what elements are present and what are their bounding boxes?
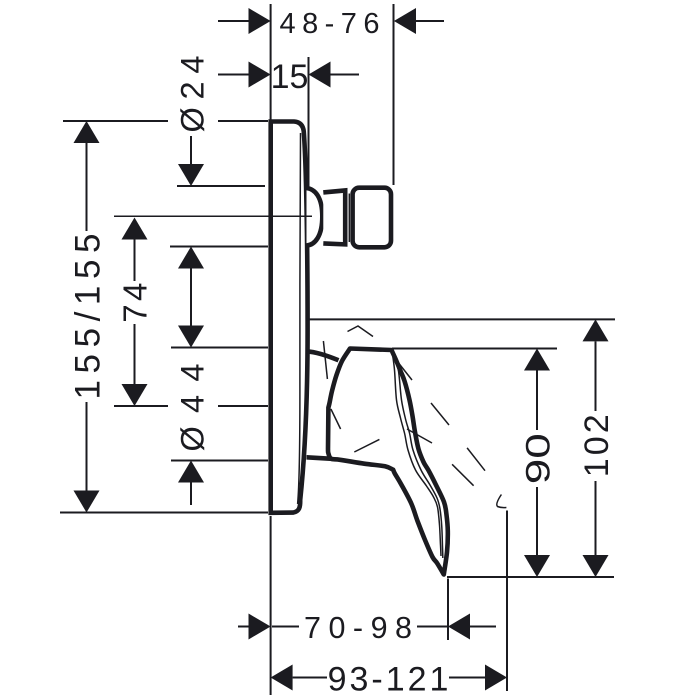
dashed swung-lever: dash lower right b (452, 464, 474, 485)
wire: extension line x=308.5 (front of plate, for 15 dim) (308, 57, 310, 188)
dimension 102 bottom arrow (583, 555, 609, 577)
dimension 93-121 left arrow (271, 665, 293, 691)
wire: extension line y=121 right part (218, 120, 268, 122)
wire: extension line x=507 (dashed lever tip) (506, 511, 508, 692)
wire: extension line y=512.5 (plate bottom) (60, 512, 268, 514)
dimension 93-121 right line (449, 677, 485, 679)
wire: extension line x=393 (knob face, for 48-76 dim) (393, 4, 395, 185)
svg-text:70-98: 70-98 (304, 611, 412, 645)
lever handle body (328, 349, 448, 575)
dimension 74 top arrow (122, 218, 148, 240)
dashed swung-lever: dash lower right a (467, 448, 485, 471)
dimension 70-98 right tail (470, 626, 496, 628)
escutcheon plate (side view) (271, 122, 308, 513)
dimension 74 bottom arrow (122, 384, 148, 406)
volume knob body (353, 188, 391, 248)
dimension 48-76 line right tail (416, 20, 444, 22)
dimension 70-98 inner right line (417, 626, 447, 628)
dimension 90 bottom arrow (524, 555, 550, 577)
dimension Ø24 upper line (190, 136, 192, 165)
dimension 48-76 right arrow (394, 8, 416, 34)
dimension 74 line upper (134, 240, 136, 282)
dimension 90 line upper (536, 371, 538, 431)
dimension 70-98 inner left line (272, 626, 299, 628)
plate face inner edge (thin) (298, 133, 301, 504)
wire: extension line y=406 left part (114, 405, 168, 407)
dimension Ø44 bottom tail (190, 483, 192, 506)
dimension Ø44 bottom arrow (up) (178, 461, 204, 483)
handle neck bottom edge (307, 457, 333, 459)
svg-text:102: 102 (578, 414, 616, 477)
dimension 155/155 line upper (86, 143, 88, 231)
wire: extension line y=319.4 (for 102) (306, 318, 615, 320)
dimension 48-76 left arrow (249, 8, 271, 34)
knob dome (behind volume knob) (307, 188, 323, 246)
dashed swung-lever: dash crossing blade (407, 429, 432, 443)
wire: extension line y=246.5 (knob bottom) (170, 246, 268, 248)
dimension 93-121 right arrow (485, 665, 507, 691)
dimension line between Ø24 and Ø44 arrows (190, 269, 192, 326)
dimension Ø44 top arrow (down) (178, 326, 204, 348)
dimension 70-98 left arrow (249, 614, 271, 640)
dimension 155/155 line lower (86, 402, 88, 491)
wire: extension line x=448 (solid lever tip) (447, 579, 449, 641)
dashed swung-lever: caret tip (348, 326, 374, 337)
dimension Ø24 bottom arrow (up) (178, 247, 204, 269)
wire: extension line x=270.6 below plate (270, 516, 272, 695)
dimension 15 right arrow (309, 62, 331, 88)
dimension 102 top arrow (583, 319, 609, 341)
dimension 15 left arrow (249, 62, 271, 88)
svg-text:15: 15 (271, 58, 309, 96)
dashed swung-lever: dash inside handle upper (331, 409, 341, 429)
dashed swung-lever: dash mid right (431, 403, 449, 425)
wire: knob centerline y=216.3 (114, 215, 312, 217)
wire: extension line y=121 (plate top) left part (63, 120, 168, 122)
lever blade inner contour line 2 (394, 355, 443, 558)
wire: extension line y=347.5 (handle top) (171, 347, 268, 349)
svg-text:48-76: 48-76 (280, 8, 380, 40)
dashed swung-lever: hook at dashed tip (497, 495, 507, 508)
lever blade inner contour line 1 (392, 353, 441, 556)
dimension 90 top arrow (524, 349, 550, 371)
dashed swung-lever: dash near blade top (393, 356, 412, 380)
handle neck top edge (307, 351, 339, 360)
dimension 155/155 bottom arrow (74, 491, 100, 513)
dimension 48-76 line left tail (218, 20, 249, 22)
dimension 70-98 right arrow (448, 614, 470, 640)
dimension 70-98 left tail (238, 626, 249, 628)
dashed swung-lever: dash inside handle lower (rising) (354, 439, 379, 452)
handle neck thin cross line (323, 341, 327, 379)
wire: extension line y=460.5 (handle bottom) (171, 460, 268, 462)
dimension 102 line upper (595, 341, 597, 411)
svg-text:Ø44: Ø44 (174, 364, 210, 452)
wire: extension line y=406 right part (218, 405, 268, 407)
wire: extension line y=577 (lever tip level) (447, 576, 614, 578)
svg-text:90: 90 (519, 433, 557, 484)
dimension 15 line left tail (218, 74, 249, 76)
dimension Ø24 top arrow (down) (178, 164, 204, 186)
dimension 102 line lower (595, 481, 597, 555)
svg-text:Ø24: Ø24 (174, 56, 210, 133)
svg-text:93-121: 93-121 (328, 661, 452, 699)
knob ring inner thin line (348, 194, 350, 243)
dimension 93-121 left line (293, 677, 327, 679)
dimension 155/155 top arrow (74, 121, 100, 143)
dimension 15 right tail (331, 74, 360, 76)
wire: extension line y=186 (knob top) (177, 185, 265, 187)
dimension 90 line lower (536, 487, 538, 555)
knob ring (collar) (323, 190, 345, 244)
wire: extension line y=348.5 (handle top right, for 90) (392, 348, 557, 350)
dimension 74 line lower (134, 324, 136, 384)
wire: wall extension line top (x=270.6, above plate) (270, 4, 272, 121)
